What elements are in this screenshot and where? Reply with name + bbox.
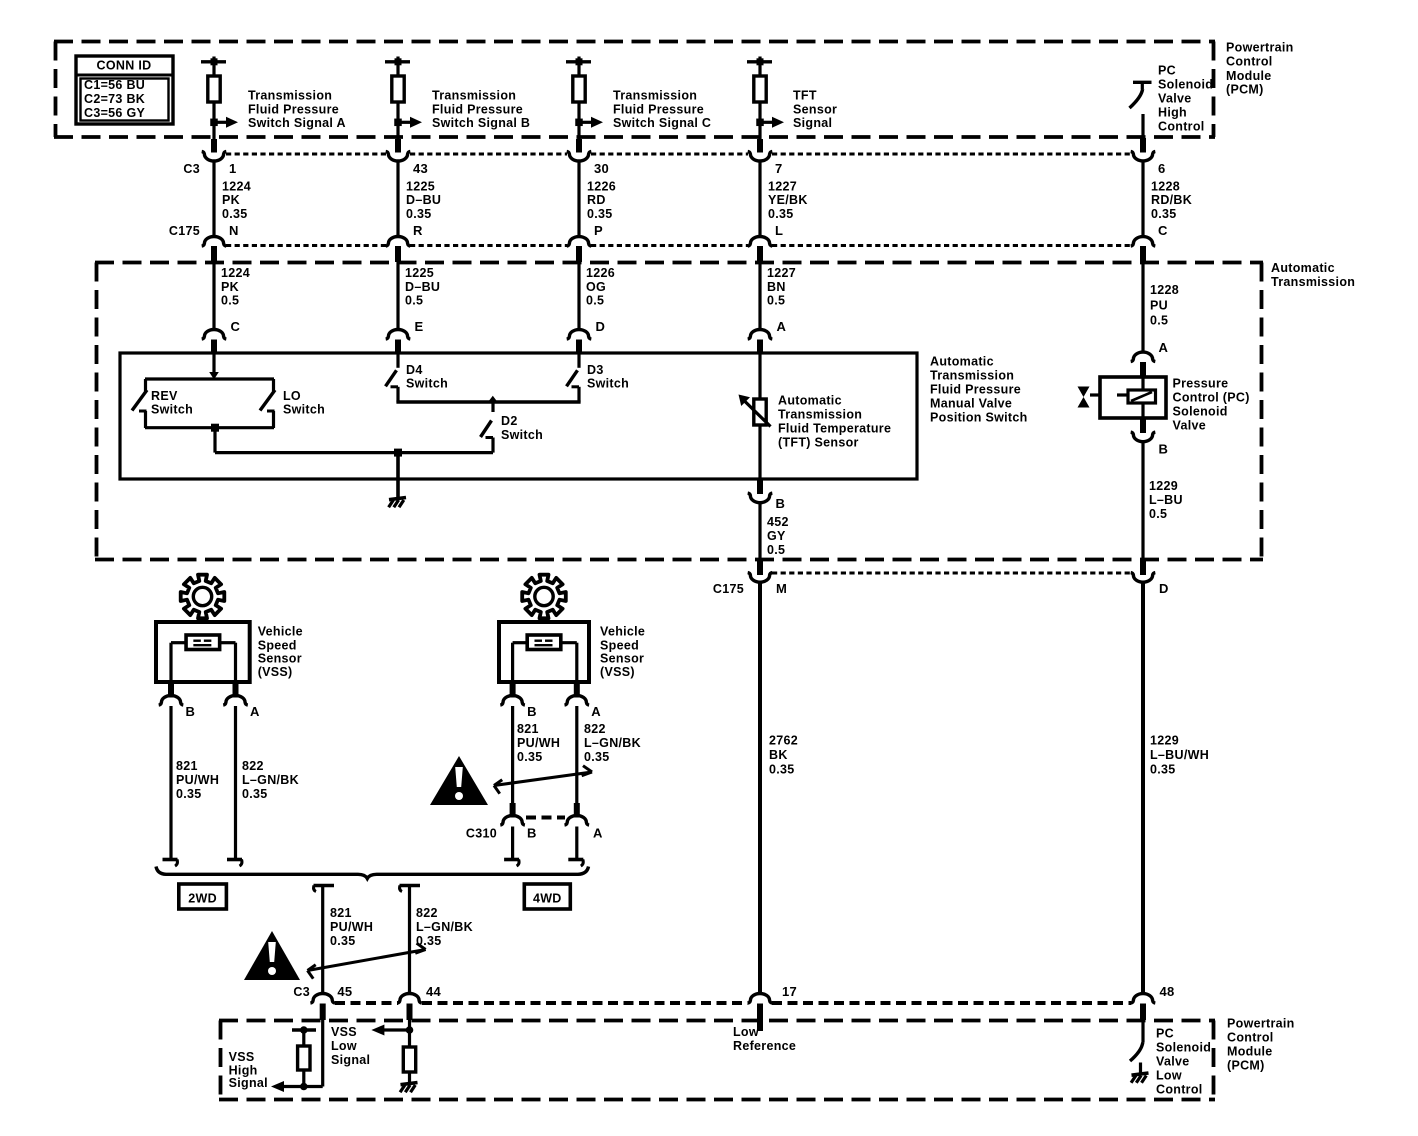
junction D2 tap (488, 396, 498, 402)
svg-text:RD: RD (587, 193, 606, 207)
connector C310 pin B (500, 803, 525, 825)
svg-text:Powertrain: Powertrain (1227, 1017, 1295, 1031)
svg-text:Valve: Valve (1173, 419, 1206, 433)
gear icon (4WD VSS) (522, 575, 566, 619)
svg-text:C3: C3 (183, 162, 200, 176)
svg-text:L–BU: L–BU (1149, 493, 1183, 507)
label LO Switch (283, 389, 325, 417)
label C175 (lower) (713, 582, 744, 596)
junction node (394, 119, 402, 127)
svg-text:Fluid Pressure: Fluid Pressure (248, 102, 339, 116)
svg-text:Switch Signal C: Switch Signal C (613, 116, 711, 130)
junction node (575, 119, 583, 127)
svg-text:Valve: Valve (1156, 1055, 1189, 1069)
svg-text:Solenoid: Solenoid (1158, 77, 1213, 91)
connector C175 dotted line (226, 244, 1131, 247)
svg-text:(TFT) Sensor: (TFT) Sensor (778, 435, 859, 449)
connector C175 half (386, 237, 411, 263)
svg-text:0.35: 0.35 (330, 934, 356, 948)
svg-text:PC: PC (1156, 1027, 1174, 1041)
value label 1225 D–BU 0.5 (405, 266, 440, 308)
label Automatic Transmission Fluid Pressure Manual Valve Position Switch (930, 354, 1028, 424)
label C310 (466, 826, 497, 840)
svg-text:A: A (1159, 340, 1169, 355)
wire 1227 BN into transmission (758, 260, 761, 331)
VSS pin A connector (565, 682, 590, 705)
VSS high termination rail (292, 1026, 316, 1034)
svg-text:BN: BN (767, 280, 786, 294)
connector C175 half (202, 237, 227, 263)
svg-text:L–BU/WH: L–BU/WH (1150, 748, 1209, 762)
svg-text:48: 48 (1160, 984, 1175, 999)
pin number 7 (775, 161, 783, 176)
wire 822 L-GN/BK merged (408, 886, 411, 996)
connector C3 pin 44 (397, 994, 422, 1021)
svg-text:Module: Module (1226, 69, 1272, 83)
VSS internal wiring (513, 643, 577, 682)
connector C3 cavity pin 6 (1131, 151, 1156, 161)
switch driver PC Solenoid Valve Low Control (PCM internal) (1130, 1018, 1143, 1073)
junction node (210, 119, 218, 127)
label 4WD box (524, 884, 570, 909)
Vehicle Speed Sensor box (4WD) (499, 622, 589, 682)
wire W1 to REV/LO switches (212, 353, 215, 376)
svg-text:Switch: Switch (151, 403, 193, 417)
signal arrow (214, 117, 238, 128)
svg-text:B: B (186, 704, 196, 719)
label 2WD box (179, 884, 227, 909)
label Transmission Fluid Pressure Switch Signal C (613, 88, 711, 130)
svg-text:L–GN/BK: L–GN/BK (584, 736, 641, 750)
junction ground tap (394, 449, 402, 457)
svg-text:Low: Low (331, 1039, 357, 1053)
wire 2762 BK down (758, 583, 762, 995)
svg-text:1226: 1226 (587, 180, 616, 194)
label Vehicle Speed Sensor (VSS) 2WD (258, 625, 303, 679)
svg-text:0.35: 0.35 (222, 207, 248, 221)
label Vehicle Speed Sensor (VSS) 4WD (600, 625, 645, 679)
svg-text:B: B (527, 826, 537, 841)
svg-text:Switch: Switch (406, 377, 448, 391)
resistor internal pull-up R1 (208, 76, 220, 102)
svg-text:D3: D3 (587, 363, 604, 377)
wire stub to C3 connector (757, 139, 763, 153)
svg-text:822: 822 (584, 722, 606, 736)
label TFT Sensor Signal (793, 88, 837, 130)
wire 1224 PK C3 to C175 (212, 162, 215, 238)
value label 1227 BN 0.5 (767, 266, 796, 308)
svg-text:0.35: 0.35 (1150, 762, 1176, 776)
svg-text:0.35: 0.35 (587, 207, 613, 221)
wire 822 L-GN/BK (4WD VSS) (575, 706, 578, 803)
Vehicle Speed Sensor box (2WD) (156, 622, 250, 682)
svg-text:Solenoid: Solenoid (1173, 405, 1228, 419)
value label 2762 BK 0.35 (769, 733, 798, 776)
pin letter B (186, 704, 196, 719)
connector C3 dashed line (bottom) (335, 1001, 1131, 1005)
svg-text:(VSS): (VSS) (600, 665, 635, 679)
terminal letter B (776, 496, 786, 511)
wire 1226 OG into transmission (577, 260, 580, 331)
wire 1225 D–BU C3 to C175 (396, 162, 399, 238)
Automatic Transmission box (95, 263, 1263, 560)
wire 822 L-GN/BK (2WD VSS) (234, 706, 237, 858)
svg-text:Powertrain: Powertrain (1226, 41, 1294, 55)
wire 1229 L-BU (1141, 443, 1144, 572)
svg-text:C175: C175 (713, 582, 744, 596)
junction VSS low (406, 1026, 414, 1034)
connector C175 half (748, 237, 773, 262)
svg-text:Automatic: Automatic (930, 354, 994, 368)
connector C310 pin A (565, 803, 590, 825)
svg-text:7: 7 (775, 161, 783, 176)
connector C3 pin 48 (1131, 994, 1156, 1020)
svg-text:Control: Control (1158, 119, 1205, 133)
VSS pickup element (527, 635, 561, 650)
svg-text:2762: 2762 (769, 733, 798, 747)
label Powertrain Control Module (PCM) top (1226, 41, 1294, 97)
svg-text:VSS: VSS (331, 1025, 357, 1039)
svg-text:Signal: Signal (229, 1076, 268, 1090)
svg-text:Sensor: Sensor (258, 652, 302, 666)
svg-text:M: M (776, 581, 787, 596)
label C175 (169, 224, 200, 238)
label PC Solenoid Valve High Control (1158, 63, 1213, 133)
svg-text:D2: D2 (501, 414, 518, 428)
wire end foot (227, 860, 242, 867)
signal arrow (579, 117, 603, 128)
VSS pickup element (186, 635, 220, 650)
connector C3 dotted line (226, 153, 1131, 156)
svg-text:0.35: 0.35 (769, 762, 795, 776)
pin letter N (229, 223, 239, 238)
svg-text:0.35: 0.35 (242, 787, 268, 801)
wire 1228 RD/BK C3 to C175 (1141, 162, 1144, 238)
pin letter L (775, 223, 783, 238)
svg-text:Control: Control (1226, 55, 1273, 69)
resistor VSS high termination (298, 1030, 310, 1087)
connector C175 pin M (748, 561, 773, 582)
note pointer line (4WD) (494, 766, 592, 794)
wire C310 A down (575, 827, 578, 859)
switch assembly connector half (202, 330, 227, 354)
note pointer line (lower) (308, 943, 426, 979)
svg-text:PU/WH: PU/WH (176, 773, 219, 787)
svg-text:Signal: Signal (331, 1053, 370, 1067)
value label 1224 PK 0.35 (222, 180, 251, 221)
wire 821 PU/WH (4WD VSS) (511, 706, 514, 803)
pin letter R (413, 223, 423, 238)
connector C3 cavity pin 7 (748, 151, 773, 161)
svg-text:D–BU: D–BU (405, 280, 440, 294)
LO switch (260, 379, 275, 428)
svg-text:A: A (593, 826, 603, 841)
svg-text:Sensor: Sensor (600, 652, 644, 666)
Pressure Control (PC) Solenoid Valve (1078, 377, 1167, 418)
svg-text:Transmission: Transmission (778, 407, 862, 421)
wire: PCM internal rail top at x=398 (385, 57, 410, 77)
svg-text:6: 6 (1158, 161, 1166, 176)
PCM module box (top) (54, 42, 1215, 138)
wire 822 merged top bar (400, 886, 421, 892)
D3 switch (567, 353, 580, 402)
value label 821 PU/WH 0.35 (4WD) (517, 722, 560, 764)
svg-text:0.35: 0.35 (517, 750, 543, 764)
svg-text:C3: C3 (293, 985, 310, 999)
switch assembly connector half (386, 330, 411, 354)
svg-text:0.5: 0.5 (1149, 507, 1167, 521)
TFT sensor (variable resistor) (739, 395, 771, 427)
ground (switch assembly) (389, 498, 406, 508)
label Transmission Fluid Pressure Switch Signal B (432, 88, 530, 130)
svg-text:L–GN/BK: L–GN/BK (416, 920, 473, 934)
svg-text:R: R (413, 223, 423, 238)
VSS internal wiring (171, 643, 236, 682)
wire: PCM internal rail top at x=579 (566, 57, 591, 77)
wire resistor to signal junction (758, 102, 761, 141)
svg-text:Switch: Switch (501, 428, 543, 442)
bus D4-D3 lower contacts (396, 400, 580, 403)
svg-text:0.5: 0.5 (767, 294, 785, 308)
connector C175 half (1131, 237, 1156, 262)
VSS pin B connector (159, 682, 184, 705)
svg-text:C1=56 BU: C1=56 BU (84, 78, 145, 92)
svg-text:0.35: 0.35 (176, 787, 202, 801)
REV/LO loop bottom rail (145, 426, 274, 429)
svg-text:1228: 1228 (1151, 180, 1180, 194)
svg-text:Switch: Switch (283, 403, 325, 417)
svg-text:LO: LO (283, 389, 301, 403)
svg-text:Switch Signal A: Switch Signal A (248, 116, 346, 130)
wire C310 B down (511, 827, 514, 859)
svg-text:Sensor: Sensor (793, 102, 837, 116)
svg-text:D: D (1159, 581, 1169, 596)
svg-text:D4: D4 (406, 363, 423, 377)
pin letter B (527, 704, 537, 719)
switch assembly connector half (748, 330, 773, 354)
value label 1229 L-BU 0.5 (1149, 479, 1183, 521)
terminal letter E (415, 319, 424, 334)
wire W4 through TFT sensor (758, 353, 761, 479)
label D4 Switch (406, 363, 448, 391)
svg-text:PC: PC (1158, 63, 1176, 77)
pin letter C (1158, 223, 1168, 238)
svg-text:0.5: 0.5 (767, 543, 785, 557)
warning note triangle (lower) (244, 931, 300, 980)
svg-text:YE/BK: YE/BK (768, 193, 808, 207)
pin number 45 (337, 984, 352, 999)
switch driver PC Solenoid Valve High Control (PCM internal) (1130, 82, 1152, 108)
resistor internal pull-up R3 (573, 76, 585, 102)
pin number 6 (1158, 161, 1166, 176)
wire 1224 PK into transmission (212, 260, 215, 331)
bottom bus to D2 (215, 451, 493, 454)
resistor internal pull-up R4 (754, 76, 766, 102)
wire ground drop (396, 453, 400, 497)
svg-text:GY: GY (767, 529, 786, 543)
svg-text:0.5: 0.5 (405, 294, 423, 308)
junction arrow at REV/LO top node (209, 372, 219, 380)
svg-text:43: 43 (413, 161, 428, 176)
svg-text:0.5: 0.5 (221, 294, 239, 308)
value label 822 L-GN/BK 0.35 (4WD) (584, 722, 641, 764)
label VSS High Signal (229, 1050, 268, 1090)
svg-text:C: C (231, 319, 241, 334)
svg-text:822: 822 (242, 759, 264, 773)
wire 1225 D–BU into transmission (396, 260, 399, 331)
svg-text:OG: OG (586, 280, 606, 294)
svg-text:Transmission: Transmission (248, 88, 332, 102)
CONN ID table (76, 56, 173, 124)
connector C3 cavity pin 1 (202, 151, 227, 161)
REV/LO loop top rail (145, 377, 274, 380)
wire resistor to signal junction (396, 102, 399, 141)
svg-text:Control (PC): Control (PC) (1173, 391, 1250, 405)
svg-text:PK: PK (221, 280, 239, 294)
wire pin17 Low Reference stub (757, 1018, 763, 1031)
label REV Switch (151, 389, 193, 417)
svg-text:P: P (594, 223, 603, 238)
svg-text:B: B (1159, 441, 1169, 456)
svg-text:PK: PK (222, 193, 240, 207)
svg-text:0.5: 0.5 (586, 294, 604, 308)
resistor VSS low termination (403, 1047, 415, 1082)
REV switch (132, 379, 147, 428)
resistor internal pull-up R2 (392, 76, 404, 102)
svg-text:(PCM): (PCM) (1226, 83, 1264, 97)
wire 821 PU/WH merged (321, 886, 324, 996)
wire stub to C3 connector (395, 139, 401, 153)
pin number 48 (1160, 984, 1175, 999)
svg-text:Pressure: Pressure (1173, 377, 1229, 391)
wire end foot (568, 860, 583, 867)
wire: PCM internal rail top at x=760 (747, 57, 772, 77)
svg-text:Vehicle: Vehicle (258, 625, 303, 639)
svg-text:17: 17 (782, 984, 797, 999)
svg-text:Solenoid: Solenoid (1156, 1041, 1211, 1055)
connector C3 cavity pin 43 (386, 151, 411, 161)
svg-text:1225: 1225 (405, 266, 434, 280)
wire: PCM internal rail top at x=214 (201, 57, 226, 77)
svg-text:452: 452 (767, 515, 789, 529)
svg-text:1: 1 (229, 161, 237, 176)
svg-text:Transmission: Transmission (432, 88, 516, 102)
svg-text:Transmission: Transmission (1271, 275, 1355, 289)
svg-text:2WD: 2WD (188, 891, 217, 905)
svg-text:1224: 1224 (221, 266, 250, 280)
value label 1229 L-BU/WH 0.35 (1150, 733, 1209, 776)
junction REV/LO bottom node (211, 424, 219, 432)
svg-text:1229: 1229 (1149, 479, 1178, 493)
label C3 (bottom) (293, 985, 310, 999)
value label 1228 PU 0.5 (1150, 283, 1179, 327)
svg-text:C175: C175 (169, 224, 200, 238)
svg-text:1224: 1224 (222, 180, 251, 194)
label Automatic Transmission (1271, 261, 1355, 289)
wire end foot (163, 860, 178, 867)
label VSS Low Signal (331, 1025, 370, 1067)
svg-text:High: High (1158, 105, 1187, 119)
svg-text:A: A (250, 704, 260, 719)
pin letter D (1159, 581, 1169, 596)
VSS Low Signal arrow (371, 1025, 409, 1036)
connector C175 half (567, 237, 592, 262)
pin letter M (776, 581, 787, 596)
connector C3 pin 45 (310, 994, 335, 1021)
terminal letter D (596, 319, 606, 334)
wire 1228 PU into transmission (1141, 260, 1144, 354)
gear icon (2WD VSS) (181, 575, 225, 619)
brace combining 2WD/4WD wires (156, 867, 589, 879)
pin letter A (C310) (593, 826, 603, 841)
value label 452 GY 0.5 (767, 515, 789, 557)
svg-text:1229: 1229 (1150, 733, 1179, 747)
label Pressure Control (PC) Solenoid Valve (1173, 377, 1250, 433)
wire stub to C3 connector (211, 139, 217, 153)
value label 822 L-GN/BK 0.35 (merged) (416, 906, 473, 948)
svg-text:C3=56 GY: C3=56 GY (84, 106, 145, 120)
value label 821 PU/WH 0.35 (merged) (330, 906, 373, 948)
wire pin45 into PCM (321, 1018, 324, 1087)
svg-text:PU/WH: PU/WH (330, 920, 373, 934)
svg-text:N: N (229, 223, 239, 238)
wire W5 to C3 connector (1140, 114, 1146, 153)
value label 1226 OG 0.5 (586, 266, 615, 308)
value label 1228 RD/BK 0.35 (1151, 180, 1192, 221)
D2 switch (481, 402, 494, 453)
svg-text:PU: PU (1150, 298, 1168, 312)
svg-text:Fluid Pressure: Fluid Pressure (930, 382, 1021, 396)
svg-text:Manual Valve: Manual Valve (930, 396, 1012, 410)
PCM module box (bottom) (219, 1021, 1215, 1100)
svg-text:VSS: VSS (229, 1050, 255, 1064)
svg-text:Reference: Reference (733, 1039, 796, 1053)
svg-text:B: B (527, 704, 537, 719)
terminal letter C (231, 319, 241, 334)
svg-text:1225: 1225 (406, 180, 435, 194)
pin letter A (250, 704, 260, 719)
svg-text:Automatic: Automatic (1271, 261, 1335, 275)
svg-text:44: 44 (426, 984, 442, 999)
connector C3 cavity pin 30 (567, 151, 592, 161)
value label 1226 RD 0.35 (587, 180, 616, 221)
svg-text:1226: 1226 (586, 266, 615, 280)
terminal letter A (777, 319, 787, 334)
wire resistor to signal junction (212, 102, 215, 141)
wire bottom node down (213, 428, 216, 453)
svg-text:821: 821 (176, 759, 198, 773)
connector C3 pin 17 (748, 994, 773, 1021)
label D3 Switch (587, 363, 629, 391)
svg-text:PU/WH: PU/WH (517, 736, 560, 750)
wire 821 PU/WH (2WD VSS) (169, 706, 172, 858)
wire 1229 L-BU/WH down (1141, 583, 1145, 995)
wire 1226 RD C3 to C175 (577, 162, 580, 238)
svg-text:4WD: 4WD (533, 891, 562, 905)
VSS pin A connector (223, 682, 248, 705)
switch assembly connector half (567, 330, 592, 353)
svg-text:B: B (776, 496, 786, 511)
connector C175 dotted line (M-D) (772, 572, 1131, 575)
pin letter A (591, 704, 601, 719)
value label 1225 D–BU 0.35 (406, 180, 441, 221)
svg-text:CONN ID: CONN ID (97, 58, 152, 72)
ground (PC solenoid low) (1131, 1073, 1148, 1083)
warning note triangle (4WD) (430, 756, 488, 805)
svg-text:L–GN/BK: L–GN/BK (242, 773, 299, 787)
svg-text:Transmission: Transmission (930, 368, 1014, 382)
svg-text:Low: Low (733, 1025, 759, 1039)
